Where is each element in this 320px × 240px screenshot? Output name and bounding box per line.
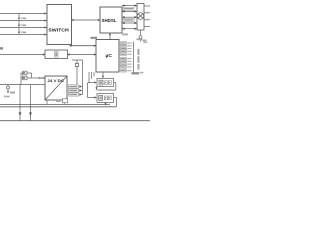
microcontroller U3 bbox=[96, 40, 119, 73]
rail out 2 bbox=[69, 89, 79, 92]
svg-text:V: V bbox=[21, 30, 23, 34]
wire into power supply bbox=[32, 77, 46, 79]
uC right pins group 2 bbox=[119, 58, 121, 60]
wire PHY box to uC bbox=[68, 54, 97, 56]
interface B down arrow bbox=[105, 103, 107, 104]
vertical service line right of pins bbox=[133, 42, 135, 75]
node CLK label bbox=[91, 37, 98, 39]
rail out 1 bbox=[69, 85, 79, 88]
svg-text:24 V DC: 24 V DC bbox=[48, 79, 65, 83]
power input line bbox=[0, 84, 45, 86]
power supply ground drop bbox=[46, 100, 48, 105]
wire SHDSL to transformer line 2 bbox=[122, 10, 137, 12]
svg-text:SWITCH: SWITCH bbox=[48, 27, 68, 32]
surge arrester to earth bbox=[140, 30, 142, 35]
label at right edge bbox=[140, 72, 144, 74]
wire SHDSL to transformer line 3 bbox=[122, 16, 137, 18]
reverse protection diode 2 bbox=[21, 77, 32, 79]
reverse protection diode 1 bbox=[21, 72, 32, 74]
small label top right of pins bbox=[137, 38, 143, 40]
supply drop vertical 2 bbox=[30, 85, 32, 121]
wire SWITCH to SHDSL bus bbox=[72, 19, 101, 21]
svg-text:V: V bbox=[21, 23, 23, 27]
switch block U1 bbox=[47, 5, 72, 45]
wire line out 4 bbox=[144, 26, 150, 28]
small sensor box bbox=[56, 100, 61, 102]
svg-text:V: V bbox=[21, 16, 23, 20]
bottom earth line bbox=[0, 120, 150, 122]
bus line 2 bbox=[0, 106, 117, 108]
crystal branch bbox=[72, 59, 83, 61]
wire SHDSL to transformer line 5 bbox=[122, 28, 137, 30]
wire LAN port line 3 bbox=[0, 27, 47, 29]
wire LAN port line 4 bbox=[0, 34, 47, 36]
wire line out 2 bbox=[144, 12, 150, 14]
bus line 1 bbox=[0, 104, 110, 106]
label 12V line feed bbox=[122, 34, 128, 36]
wire LAN port line 1 bbox=[0, 13, 47, 15]
node port arrowheads into switch bbox=[44, 12, 46, 35]
svg-text:µC: µC bbox=[106, 53, 113, 59]
interface A loop bbox=[114, 82, 116, 84]
wire line out 1 bbox=[144, 5, 150, 7]
uC down arrow to interface A bbox=[102, 72, 104, 77]
wire MII bus to uC bbox=[70, 45, 97, 47]
wire SHDSL to transformer line 1 bbox=[122, 5, 137, 7]
shdsl block U2 bbox=[100, 7, 122, 33]
wire loop verticals bbox=[20, 73, 22, 85]
wire line out 3 bbox=[144, 19, 150, 21]
config block with symbol bbox=[45, 50, 68, 59]
uC bottom verticals bbox=[88, 72, 90, 83]
config interface line bbox=[0, 54, 45, 56]
power supply 24VDC bbox=[45, 76, 67, 100]
node VDD arrow 1 bbox=[18, 14, 20, 19]
label under service line bbox=[132, 72, 140, 74]
svg-text:V: V bbox=[4, 94, 6, 98]
interface block A bbox=[88, 82, 96, 84]
transformer T1 bbox=[137, 4, 144, 31]
uC right pin single bbox=[119, 70, 121, 72]
svg-text:SHDSL: SHDSL bbox=[102, 18, 117, 23]
label SHDSL A bbox=[123, 7, 134, 10]
node left margin label bbox=[0, 47, 3, 49]
node VDD arrow 3 bbox=[18, 28, 20, 33]
interface B loop bbox=[114, 97, 117, 99]
fuse to earth bbox=[7, 85, 9, 87]
vertical annotation text right of service line bbox=[137, 49, 139, 70]
wire SHDSL to transformer line 4 bbox=[122, 22, 137, 24]
label SHDSL B bbox=[123, 18, 134, 21]
supply drop vertical 1 bbox=[19, 85, 21, 121]
power rail vertical bbox=[82, 60, 84, 95]
wire uC to SHDSL bbox=[109, 33, 111, 39]
wire LAN port line 2 bbox=[0, 20, 47, 22]
rail out 3 bbox=[69, 93, 79, 96]
node VDD arrow 2 bbox=[18, 21, 20, 26]
uC right pins group 1 bbox=[119, 42, 121, 44]
interface block B bbox=[88, 97, 96, 99]
